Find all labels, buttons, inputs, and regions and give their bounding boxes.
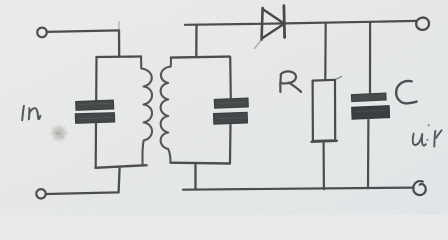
wire: top-left terminal to primary tank <box>47 30 119 56</box>
label C <box>396 81 416 103</box>
capacitor C3 (output filter capacitor) <box>351 93 389 119</box>
wire: capacitor C1 bottom lead <box>95 123 98 167</box>
terminal: output bottom-right <box>413 181 425 195</box>
inductor L1 (transformer primary winding) <box>141 57 152 165</box>
wire: secondary tank bottom edge <box>170 161 229 164</box>
terminal: output top-right <box>416 18 429 30</box>
wire: capacitor C2 top lead <box>229 57 232 98</box>
wire: secondary tank to top rail <box>195 25 197 57</box>
wire: capacitor C3 top lead <box>369 22 371 93</box>
wire: primary tank top edge <box>97 55 142 58</box>
terminal: input bottom-left <box>36 189 45 198</box>
wire: resistor R top lead <box>324 23 327 80</box>
wire: secondary tank top edge <box>171 57 230 58</box>
wire: primary tank bottom edge <box>95 165 146 168</box>
wire: secondary tank to bottom rail <box>194 164 196 190</box>
wire: bottom-left terminal to primary tank <box>46 167 120 194</box>
label R <box>280 71 301 91</box>
wire: capacitor C1 top lead <box>95 57 98 100</box>
label u.t (output voltage) <box>413 130 442 146</box>
wire: top rail <box>185 21 416 25</box>
inductor L2 (transformer secondary winding) <box>161 58 171 163</box>
wire: bottom rail <box>183 188 414 190</box>
diode D1 <box>262 6 285 40</box>
wire: capacitor C2 bottom lead <box>229 124 232 163</box>
capacitor C2 (secondary tank capacitor) <box>213 98 248 124</box>
resistor R body <box>312 77 342 142</box>
terminal: input top-left <box>37 28 47 38</box>
wire: capacitor C3 bottom lead <box>367 119 370 188</box>
label In <box>22 106 40 120</box>
wire: resistor R bottom lead <box>323 141 325 189</box>
capacitor C1 (primary tank capacitor) <box>75 100 115 123</box>
